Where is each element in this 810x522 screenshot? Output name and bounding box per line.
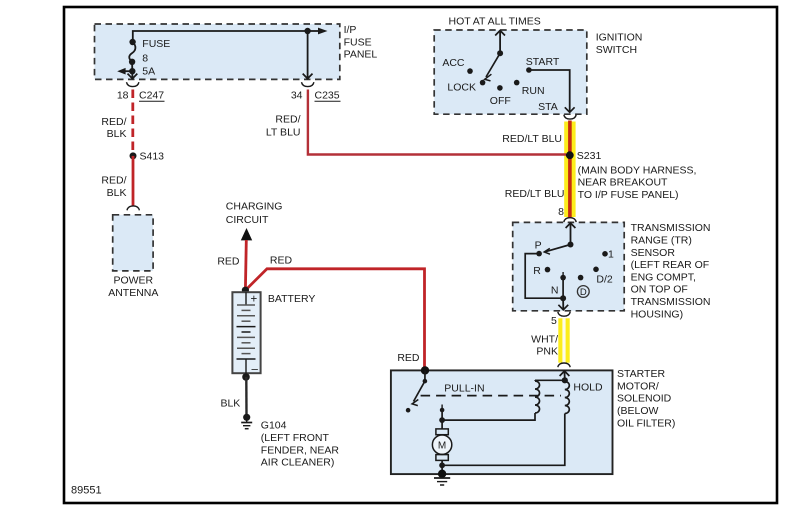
I/P fuse panel box	[95, 24, 378, 79]
node TR rotor pivot	[568, 242, 574, 248]
contact START	[526, 56, 560, 73]
svg-text:FENDER, NEAR: FENDER, NEAR	[261, 444, 340, 456]
wire fuse to pin 18 arrow down	[128, 71, 138, 78]
svg-text:RED: RED	[397, 352, 420, 364]
node fuse panel bus junction	[304, 28, 310, 34]
svg-text:PULL-IN: PULL-IN	[444, 382, 484, 394]
ground G104	[241, 414, 339, 469]
splice S231	[566, 150, 697, 201]
node starter ground terminal	[438, 470, 446, 478]
svg-text:S231: S231	[577, 150, 602, 162]
contact D middle	[578, 275, 584, 281]
wire fuse tap arrow left	[117, 68, 132, 75]
wire TR output arrow down	[558, 298, 568, 310]
svg-text:ENG COMPT,: ENG COMPT,	[631, 271, 696, 283]
starter motor M	[432, 420, 451, 465]
svg-text:M: M	[438, 440, 446, 451]
diagram number 89551	[71, 485, 102, 497]
contact RUN	[514, 80, 545, 97]
svg-text:NEAR BREAKOUT: NEAR BREAKOUT	[578, 177, 668, 189]
node starter battery terminal	[421, 366, 429, 374]
svg-text:R: R	[533, 265, 541, 277]
svg-text:ACC: ACC	[442, 57, 465, 69]
splice S413	[130, 151, 165, 163]
pull-in coil	[535, 380, 540, 413]
svg-text:WHT/: WHT/	[531, 333, 558, 345]
wire START to STA output	[529, 70, 575, 113]
wire fuse top bus	[133, 31, 308, 42]
svg-text:RED/: RED/	[101, 175, 126, 187]
svg-text:MOTOR/: MOTOR/	[617, 380, 659, 392]
svg-text:STA: STA	[538, 101, 558, 113]
svg-text:LT BLU: LT BLU	[266, 127, 301, 139]
label PULL-IN	[444, 382, 484, 394]
node battery negative	[242, 373, 250, 381]
svg-text:8: 8	[558, 206, 564, 218]
wire BLK battery to ground	[220, 377, 246, 414]
svg-text:CHARGING: CHARGING	[226, 201, 283, 213]
svg-text:C247: C247	[139, 90, 164, 102]
wire hold coil to motor bottom	[442, 414, 565, 466]
pin 5 TR sensor	[551, 315, 557, 327]
wire bus arrow right	[308, 28, 328, 35]
starter motor/solenoid box	[391, 368, 675, 474]
svg-text:–: –	[252, 364, 259, 376]
node ignition rotor pivot	[497, 50, 503, 56]
contact R	[533, 265, 550, 277]
svg-text:5: 5	[551, 315, 557, 327]
svg-text:G104: G104	[261, 420, 287, 432]
fuse F8 5A	[129, 38, 170, 78]
svg-text:RED/: RED/	[101, 116, 126, 128]
svg-text:(LEFT REAR OF: (LEFT REAR OF	[631, 259, 710, 271]
connector at starter solenoid	[558, 363, 570, 367]
contact 1	[602, 248, 614, 260]
wire RED battery to charging circuit	[217, 240, 246, 290]
wire RED/BLK dashed C247 to S413	[101, 90, 132, 153]
svg-text:STARTER: STARTER	[617, 368, 665, 380]
svg-text:HOUSING): HOUSING)	[631, 308, 684, 320]
wire RED/BLK S413 to power antenna	[101, 156, 133, 206]
svg-text:OIL FILTER): OIL FILTER)	[617, 417, 675, 429]
svg-text:RED/LT BLU: RED/LT BLU	[502, 133, 562, 145]
label HOT AT ALL TIMES	[449, 16, 541, 28]
node fuse output	[129, 68, 135, 74]
connector C235	[291, 82, 341, 102]
svg-text:5A: 5A	[142, 66, 155, 78]
wire P to N junction	[525, 254, 563, 299]
contact D/2	[593, 267, 613, 286]
contact LOCK	[447, 80, 485, 94]
wire motor to case ground	[441, 465, 443, 474]
svg-text:TRANSMISSION: TRANSMISSION	[631, 296, 711, 308]
svg-text:34: 34	[291, 90, 303, 102]
pin 8 TR sensor	[558, 206, 564, 218]
wire motor junction to pull-in coil	[442, 413, 535, 420]
wire pin 34 drop arrow down	[303, 31, 313, 79]
svg-text:I/P: I/P	[344, 24, 357, 36]
charging circuit arrow	[226, 201, 283, 241]
svg-text:(MAIN BODY HARNESS,: (MAIN BODY HARNESS,	[578, 164, 697, 176]
battery	[232, 292, 315, 375]
contact ACC	[442, 57, 472, 74]
hold coil	[565, 382, 603, 414]
svg-text:RANGE (TR): RANGE (TR)	[631, 235, 692, 247]
mechanical link dashed	[421, 395, 561, 397]
svg-text:ANTENNA: ANTENNA	[108, 287, 158, 299]
svg-text:ON TOP OF: ON TOP OF	[631, 284, 688, 296]
svg-text:D/2: D/2	[596, 274, 613, 286]
svg-text:PNK: PNK	[536, 346, 558, 358]
svg-text:POWER: POWER	[113, 275, 153, 287]
svg-text:SWITCH: SWITCH	[596, 44, 637, 56]
svg-text:S413: S413	[140, 151, 165, 163]
ground starter case	[434, 478, 450, 485]
svg-text:IGNITION: IGNITION	[596, 32, 643, 44]
wire RED battery to starter solenoid	[245, 254, 424, 369]
connector at TR sensor pin 8	[564, 218, 576, 222]
svg-text:C235: C235	[315, 90, 340, 102]
svg-text:RED/: RED/	[275, 114, 300, 126]
circled D label	[577, 286, 589, 299]
svg-text:89551: 89551	[71, 485, 102, 497]
svg-text:TRANSMISSION: TRANSMISSION	[631, 222, 711, 234]
power antenna box	[108, 215, 158, 299]
svg-text:P: P	[535, 240, 542, 252]
node TR output junction	[560, 295, 566, 301]
transmission range sensor box	[513, 222, 711, 320]
ignition switch box	[434, 30, 642, 114]
svg-text:RED: RED	[270, 254, 293, 266]
node battery positive junction	[242, 287, 249, 294]
connector at ignition STA	[564, 115, 576, 119]
wire RED/LT BLU C235 to S231	[266, 90, 566, 155]
svg-text:N: N	[551, 285, 559, 297]
TR rotor lever	[544, 245, 570, 255]
node hold coil junction	[562, 377, 568, 383]
svg-text:18: 18	[117, 90, 129, 102]
svg-text:1: 1	[608, 248, 614, 260]
svg-text:BATTERY: BATTERY	[268, 293, 315, 305]
svg-text:RUN: RUN	[522, 85, 545, 97]
svg-text:HOLD: HOLD	[573, 382, 603, 394]
svg-text:LOCK: LOCK	[447, 82, 476, 94]
connector at TR sensor pin 5	[558, 312, 570, 316]
svg-text:BLK: BLK	[220, 397, 240, 409]
svg-text:START: START	[526, 56, 560, 68]
starter solenoid switch	[406, 370, 427, 412]
svg-text:(BELOW: (BELOW	[617, 405, 659, 417]
svg-text:OFF: OFF	[490, 95, 511, 107]
svg-text:SENSOR: SENSOR	[631, 247, 676, 259]
svg-text:BLK: BLK	[107, 187, 127, 199]
svg-text:HOT AT ALL TIMES: HOT AT ALL TIMES	[449, 16, 541, 28]
connector C247	[117, 82, 165, 102]
svg-text:TO I/P FUSE PANEL): TO I/P FUSE PANEL)	[578, 189, 679, 201]
svg-text:PANEL: PANEL	[344, 49, 378, 61]
svg-text:RED/LT BLU: RED/LT BLU	[505, 188, 565, 200]
contact P	[535, 240, 542, 257]
highlight RED/LT BLU wire (yellow)	[502, 121, 575, 218]
node motor bottom junction	[439, 462, 445, 468]
svg-text:(LEFT FRONT: (LEFT FRONT	[261, 432, 330, 444]
svg-text:+: +	[251, 293, 258, 305]
svg-text:FUSE: FUSE	[142, 38, 170, 50]
node motor top junction	[439, 417, 445, 423]
ignition rotor lever	[485, 53, 500, 81]
svg-text:D: D	[580, 287, 587, 298]
svg-text:AIR CLEANER): AIR CLEANER)	[261, 457, 335, 469]
svg-text:CIRCUIT: CIRCUIT	[226, 214, 269, 226]
contact OFF	[490, 85, 511, 107]
svg-text:SOLENOID: SOLENOID	[617, 393, 672, 405]
wire pull-in top to hold junction	[535, 379, 565, 381]
wire starter input arrow up	[560, 371, 570, 380]
connector at power antenna	[127, 206, 139, 210]
wire TR sensor input arrow up	[566, 223, 576, 245]
svg-text:8: 8	[142, 53, 148, 65]
highlight WHT/PNK wire (yellow)	[531, 318, 570, 362]
svg-text:BLK: BLK	[107, 128, 127, 140]
contact N with stub	[551, 272, 566, 298]
svg-text:FUSE: FUSE	[344, 36, 372, 48]
svg-text:RED: RED	[217, 256, 240, 268]
wire ignition feed arrow up	[495, 31, 505, 54]
motor feed contact with stub	[440, 405, 445, 421]
